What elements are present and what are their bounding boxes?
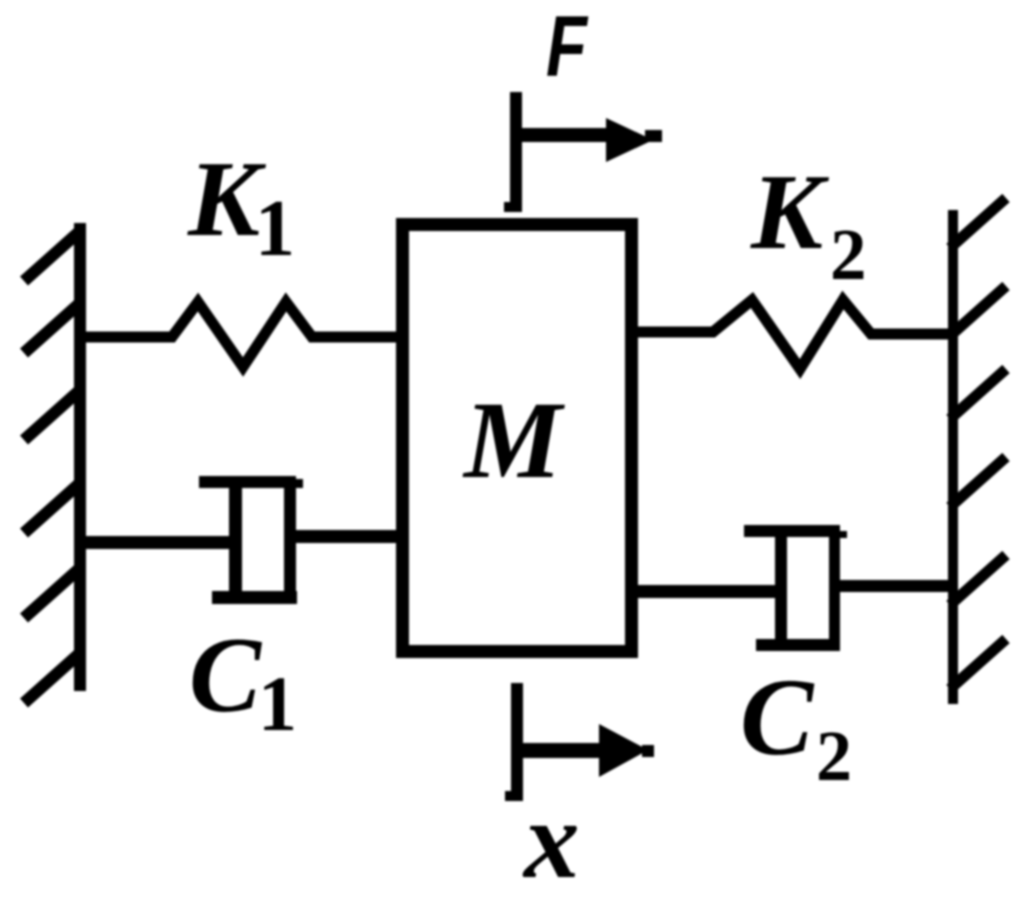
left wall (74, 223, 86, 691)
right wall hatch 5 (950, 555, 1006, 605)
displacement x arrowhead (599, 724, 648, 777)
force F arrow vertical line (510, 92, 522, 204)
displacement x arrow vertical line (511, 683, 523, 793)
force F arrowhead (606, 118, 653, 162)
damper C2 right rod (840, 580, 948, 592)
left wall hatch 5 (24, 568, 80, 618)
force F arrow foot (504, 202, 522, 212)
spring K1 (86, 302, 396, 367)
damper C2 cylinder top bar (744, 525, 840, 537)
mass M (403, 225, 632, 652)
left wall hatch 1 (24, 231, 80, 281)
damper C1 right rod (296, 530, 396, 543)
svg-text:1: 1 (255, 185, 295, 273)
spring K2 (638, 300, 948, 369)
force F arrow shaft (516, 128, 612, 142)
right wall hatch 1 (950, 198, 1006, 248)
right wall hatch 3 (950, 369, 1006, 419)
damper C2 cylinder right plate (829, 536, 840, 651)
damper C1 left rod (86, 536, 229, 549)
damper C1 cylinder right plate (284, 486, 296, 604)
damper C2 left rod (638, 585, 775, 598)
svg-text:C: C (740, 656, 815, 778)
damper C1 cylinder top bar (199, 476, 296, 488)
left wall hatch 4 (24, 483, 80, 533)
right wall (948, 210, 958, 704)
left wall hatch 2 (24, 303, 80, 353)
svg-text:M: M (462, 379, 565, 501)
damper C2 cylinder bottom bar (756, 639, 840, 651)
displacement x arrow foot (505, 791, 523, 801)
displacement x arrow shaft (522, 743, 604, 758)
right wall hatch 4 (950, 457, 1006, 507)
right wall hatch 2 (950, 286, 1006, 336)
left wall hatch 6 (24, 653, 80, 703)
svg-text:2: 2 (830, 214, 867, 295)
damper C1 cylinder bottom bar (212, 591, 297, 604)
svg-text:K: K (750, 153, 830, 272)
damper C2 piston plate (775, 535, 787, 639)
left wall hatch 3 (24, 390, 80, 440)
svg-text:C: C (189, 616, 263, 735)
svg-text:F: F (546, 0, 589, 95)
svg-text:1: 1 (258, 660, 297, 747)
damper C1 piston plate (229, 486, 242, 593)
svg-text:x: x (522, 779, 580, 898)
svg-text:2: 2 (816, 716, 852, 796)
right wall hatch 6 (950, 639, 1006, 689)
